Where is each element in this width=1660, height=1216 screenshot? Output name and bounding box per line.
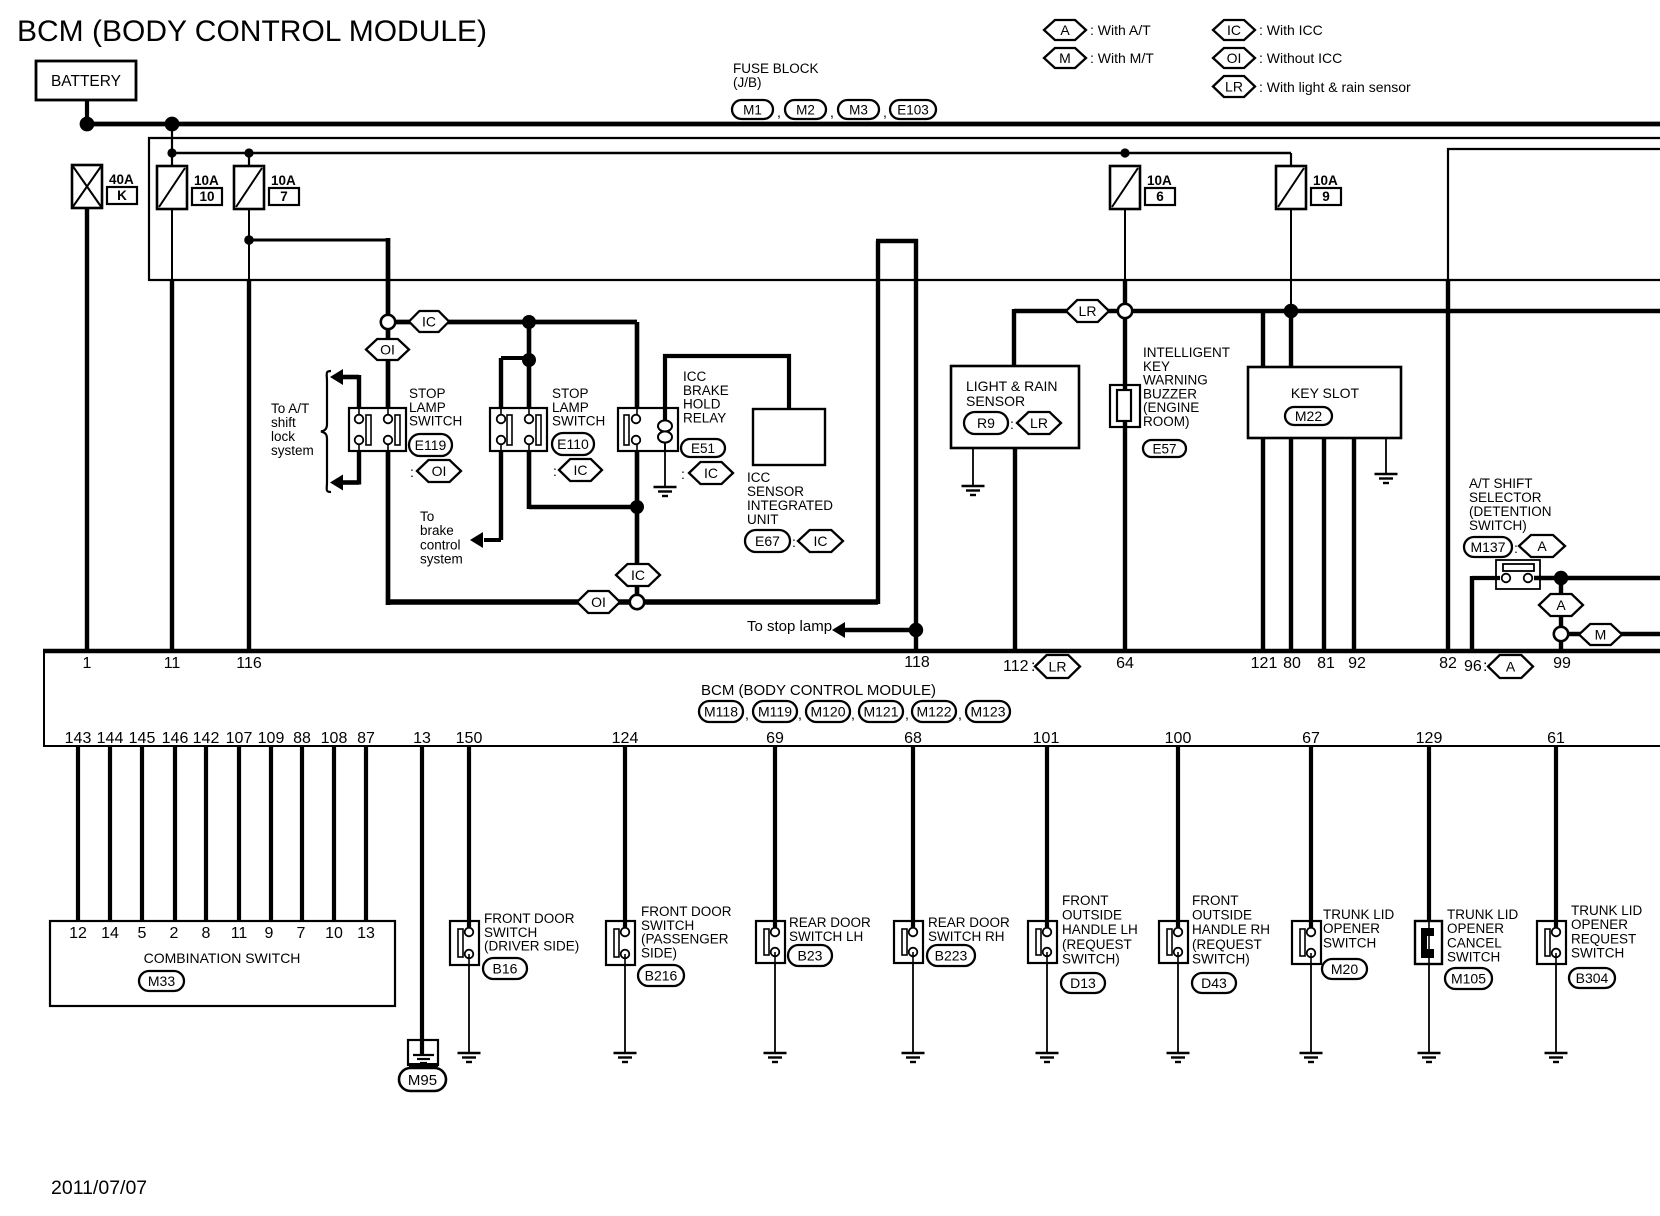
svg-text:SIDE): SIDE) [641,945,677,960]
svg-text:brake: brake [420,523,454,538]
svg-text:M3: M3 [849,102,868,117]
wire LR row y311 [1014,309,1660,314]
combination switch wires [76,746,80,921]
svg-text:CANCEL: CANCEL [1447,935,1502,950]
svg-text:LR: LR [1225,79,1243,95]
junction x529 y360 [522,353,536,367]
svg-text:107: 107 [226,730,253,747]
svg-text:: With light & rain sensor: : With light & rain sensor [1259,79,1411,95]
svg-text:: With ICC: : With ICC [1259,22,1323,38]
svg-text:11: 11 [164,655,181,672]
svg-text:10A: 10A [271,173,296,188]
svg-text:99: 99 [1553,655,1571,672]
svg-text:IC: IC [814,533,828,549]
wire E119 left pin down [358,444,360,450]
bus BAT rail y124 [87,122,1660,127]
svg-text:,: , [745,706,749,722]
svg-text:A/T SHIFT: A/T SHIFT [1469,476,1533,491]
svg-text:HOLD: HOLD [683,397,721,412]
svg-text:92: 92 [1348,655,1366,672]
connector M137 [1464,537,1512,557]
svg-text:KEY: KEY [1143,359,1170,374]
connector E103 [890,100,936,119]
hexagon OI on x388 [366,339,409,360]
svg-text:101: 101 [1033,730,1060,747]
legend IC with ICC [1213,20,1255,40]
trunk lid opener switch M20 [1292,921,1321,964]
svg-text:2: 2 [170,925,179,942]
wire E119 left pin up [357,375,361,409]
wire pin61 to B304 [1554,746,1558,927]
wire x1448 to BCM 82 [1446,280,1450,651]
svg-text:40A: 40A [109,172,134,187]
svg-text:M20: M20 [1331,961,1358,977]
wire bus to rail153 at x172 [171,124,173,166]
svg-text:IC: IC [1227,22,1241,38]
svg-text:,: , [851,706,855,722]
svg-text:HANDLE LH: HANDLE LH [1062,922,1138,937]
svg-text:OI: OI [591,594,606,610]
svg-text:R9: R9 [977,415,995,431]
front outside handle LH request switch D13 [1028,921,1057,963]
wire x878 up [876,241,880,604]
ground B216 [614,1052,637,1054]
svg-text:14: 14 [101,925,119,942]
fuse 10A 10 [157,166,187,209]
svg-text:145: 145 [129,730,156,747]
svg-text:OI: OI [432,463,447,479]
fuse 40A K [72,165,102,208]
wire B16 to ground [468,965,470,1053]
svg-text:HANDLE RH: HANDLE RH [1192,922,1270,937]
svg-text:system: system [420,552,463,567]
svg-text:143: 143 [65,730,92,747]
svg-text:BRAKE: BRAKE [683,383,729,398]
svg-text:B216: B216 [645,968,678,984]
svg-text:5: 5 [138,925,147,942]
wire coil to ground [664,448,666,487]
svg-text:BUZZER: BUZZER [1143,386,1197,401]
wire fuse6 to circle [1124,209,1126,280]
wire pin124 to B216 [623,746,627,927]
svg-text::: : [681,466,685,482]
connector M20 [1322,959,1367,979]
wire B216 to ground [624,965,626,1053]
arrow to brake control system [470,532,483,548]
front door switch passenger B216 [606,921,635,965]
trunk lid opener request switch B304 [1537,921,1566,964]
svg-text:IC: IC [631,567,645,583]
svg-text:K: K [117,188,127,203]
arrow to stop lamp [832,622,845,638]
svg-text:RELAY: RELAY [683,410,726,425]
junction rail153 x249 [244,148,253,157]
svg-text:E51: E51 [691,441,715,456]
stop lamp switch E119 [349,408,406,451]
svg-text:D43: D43 [1201,975,1227,991]
connector M122 [912,701,956,722]
wire y240 branch [249,239,388,242]
svg-text:124: 124 [612,730,639,747]
svg-text:OPENER: OPENER [1447,921,1504,936]
wire B304 to ground [1555,964,1557,1053]
legend OI without ICC [1213,48,1255,68]
hexagon A pin96 [1488,655,1533,678]
svg-text:,: , [883,104,887,120]
wire x1472 to BCM 96 [1470,576,1474,651]
wire detention switch left [1472,576,1500,580]
svg-text:M120: M120 [810,704,845,720]
junction x1291 y311 [1284,304,1299,319]
svg-text:9: 9 [1322,189,1330,204]
svg-text:SWITCH LH: SWITCH LH [789,929,863,944]
svg-text:M123: M123 [970,704,1005,720]
svg-text:(PASSENGER: (PASSENGER [641,932,729,947]
svg-text:B223: B223 [935,948,968,964]
junction x1561 y575 [1554,571,1568,585]
wire x1561 down [1559,578,1563,628]
ground light rain sensor [962,485,985,487]
svg-text:A: A [1556,597,1566,613]
svg-text:LR: LR [1079,303,1097,319]
fuse 10A 6 [1110,166,1140,209]
svg-text:E67: E67 [755,533,780,549]
key slot M22 [1248,367,1401,438]
svg-text:FRONT DOOR: FRONT DOOR [641,904,732,919]
svg-text:67: 67 [1302,730,1320,747]
svg-text:ICC: ICC [747,470,771,485]
svg-text:OPENER: OPENER [1323,921,1380,936]
rail y280 [149,279,1660,281]
svg-text:: With M/T: : With M/T [1090,50,1154,66]
wire D43 to ground [1177,963,1179,1053]
svg-text:E57: E57 [1152,441,1176,456]
svg-text:7: 7 [297,925,306,942]
connector E67 [745,530,790,552]
ground B23 [764,1052,787,1054]
svg-text:1: 1 [83,655,92,672]
svg-text:144: 144 [97,730,124,747]
svg-text:shift: shift [271,415,296,430]
svg-text:,: , [958,706,962,722]
junction battery bus [80,117,95,132]
svg-text:ROOM): ROOM) [1143,414,1190,429]
front door switch driver B16 [450,921,479,965]
connector D43 [1192,973,1236,993]
svg-text:142: 142 [193,730,220,747]
svg-text:B23: B23 [798,948,823,964]
svg-text:SWITCH: SWITCH [641,918,694,933]
ground M105 [1418,1052,1441,1054]
hexagon IC branch [409,311,449,332]
wire pin68 to B223 [911,746,915,927]
connector D13 [1061,973,1105,993]
svg-text:M1: M1 [743,102,762,117]
wire circle to buzzer and BCM 64 [1123,318,1127,651]
svg-text:12: 12 [69,925,87,942]
arrow to A/T top [330,369,343,385]
svg-text:M118: M118 [704,704,738,720]
svg-text:,: , [830,104,834,120]
svg-text:129: 129 [1416,730,1443,747]
svg-text:IC: IC [574,462,588,478]
wire pin69 to B23 [773,746,777,927]
wire sensor to BCM 112 [1013,448,1017,651]
svg-text:SWITCH: SWITCH [409,414,462,429]
wire x501 to switch E110 [499,358,503,409]
svg-text:STOP: STOP [552,386,589,401]
ground D43 [1167,1052,1190,1054]
svg-text:109: 109 [258,730,285,747]
rail y149 right [1447,148,1660,150]
svg-text:: With A/T: : With A/T [1090,22,1151,38]
wire to stop lamp arrow [845,628,916,633]
hexagon IC above circle [616,564,660,586]
ICC sensor integrated unit E67 [753,409,825,465]
svg-text:88: 88 [293,730,311,747]
svg-text:KEY SLOT: KEY SLOT [1291,385,1360,401]
hexagon M on y635 [1579,624,1622,645]
svg-text:TRUNK LID: TRUNK LID [1447,907,1519,922]
wire x529 to switch E110 pin [527,360,532,409]
svg-text:69: 69 [766,730,784,747]
ground relay [654,486,677,488]
svg-text:100: 100 [1165,730,1192,747]
junction x249 y240 [244,235,254,245]
svg-text:A: A [1060,22,1070,38]
wire M row y635 [1568,632,1660,637]
trunk lid opener cancel switch M105 [1415,921,1442,964]
legend M with M/T [1044,48,1086,68]
node circle x1561 y635 [1554,627,1568,641]
wire fuse9 to key slot [1290,209,1292,307]
svg-text:To stop lamp: To stop lamp [747,618,832,635]
wire y507 switch E110 to relay column [529,505,637,510]
svg-text:FRONT: FRONT [1062,893,1109,908]
legend A with A/T [1044,20,1086,40]
ground B304 [1545,1052,1568,1054]
svg-text:LIGHT & RAIN: LIGHT & RAIN [966,378,1058,394]
ground M95 [408,1040,438,1065]
svg-text:FRONT DOOR: FRONT DOOR [484,911,575,926]
wire relay coil top [663,354,667,421]
svg-text:E103: E103 [897,102,929,117]
svg-text:,: , [798,706,802,722]
svg-text:,: , [777,104,781,120]
svg-text:BCM (BODY CONTROL MODULE): BCM (BODY CONTROL MODULE) [701,682,936,699]
ICC brake hold relay E51 [618,408,678,451]
svg-text:87: 87 [357,730,375,747]
wire M105 to ground [1428,964,1430,1053]
svg-text:M119: M119 [758,704,792,720]
wire y540 to arrow [484,538,501,542]
front outside handle RH request switch D43 [1159,921,1188,963]
arrow to A/T bottom [330,475,343,491]
svg-text:2011/07/07: 2011/07/07 [51,1177,147,1199]
svg-text:lock: lock [271,429,295,444]
svg-text:7: 7 [280,189,288,204]
wire pin150 to B16 [467,746,471,927]
BCM box [43,649,1660,653]
hexagon LR on y311 [1066,300,1109,322]
svg-text:M: M [1059,50,1071,66]
brace to A/T shift lock system [321,371,331,492]
svg-text:(REQUEST: (REQUEST [1062,937,1132,952]
svg-text:REQUEST: REQUEST [1571,931,1636,946]
svg-text:M105: M105 [1451,971,1486,987]
wire B223 to ground [912,963,914,1053]
svg-text:FRONT: FRONT [1192,893,1239,908]
svg-text:To A/T: To A/T [271,401,309,416]
wire battery to bus [85,100,89,127]
svg-text:M122: M122 [916,704,951,720]
connector M1 [732,100,773,119]
wire pin13 to M95 [420,746,424,1056]
svg-text:64: 64 [1116,655,1134,672]
svg-text:B304: B304 [1576,970,1609,986]
svg-text:SWITCH RH: SWITCH RH [928,929,1005,944]
junction to stop lamp [909,623,923,637]
svg-text::: : [792,534,796,550]
connector M105 [1445,968,1492,989]
light and rain sensor R9 [951,366,1079,448]
wire x1448 thin [1447,148,1449,281]
svg-text:10A: 10A [194,173,219,188]
svg-text:OI: OI [380,342,395,358]
rear door switch LH B23 [756,921,785,963]
connector M121 [859,701,903,722]
combination switch M33 [50,921,395,1006]
svg-text::: : [553,463,557,479]
connector M120 [806,701,850,722]
connector M123 [966,701,1010,722]
svg-text::: : [1514,540,1518,556]
wire pin101 to D13 [1045,746,1049,927]
svg-text:D13: D13 [1070,975,1096,991]
rail y138 [148,137,1660,139]
connector B216 [638,965,684,986]
connector E110 [552,433,594,455]
svg-text:To: To [420,509,434,524]
svg-text:10: 10 [325,925,343,942]
svg-text:M121: M121 [863,704,898,720]
svg-text:81: 81 [1317,655,1335,672]
svg-text:LAMP: LAMP [409,400,446,415]
wire x1014 to light rain sensor [1012,309,1016,366]
wire E119 out to OI corner [387,444,389,450]
ground B223 [902,1052,925,1054]
svg-text:OUTSIDE: OUTSIDE [1192,908,1252,923]
svg-text:9: 9 [265,925,274,942]
connector M95 [399,1068,446,1091]
hexagon A condition M137 [1519,535,1565,557]
wire x1263 down to key slot [1261,311,1265,367]
node circle x637 y602 [630,595,644,609]
svg-text:BATTERY: BATTERY [51,73,121,90]
svg-text:(DRIVER SIDE): (DRIVER SIDE) [484,939,579,954]
svg-text:SWITCH: SWITCH [1447,950,1500,965]
svg-text:LR: LR [1049,659,1067,675]
wire pin67 to M20 [1309,746,1313,927]
connector M119 [753,701,797,722]
wire D13 to ground [1046,963,1048,1053]
hexagon LR pin112 [1035,655,1080,678]
svg-text:80: 80 [1283,655,1301,672]
svg-text:13: 13 [413,730,431,747]
wire rail153 to fuse9 [1290,153,1292,166]
connector M118 [699,701,743,722]
svg-text:SWITCH: SWITCH [552,414,605,429]
svg-text:SWITCH): SWITCH) [1469,518,1527,533]
wire fuse K to BCM pin 1 [85,208,89,651]
svg-text:96: 96 [1464,658,1482,675]
wire pin100 to D43 [1176,746,1180,927]
svg-text:M95: M95 [408,1072,437,1089]
fuse 10A 9 [1276,166,1306,209]
svg-text:118: 118 [904,654,930,671]
node ignition circle x388 [381,315,395,329]
svg-text:M33: M33 [148,973,175,989]
junction IC line x529 [522,315,536,329]
wire x529 E110 down [528,444,530,450]
svg-text:UNIT: UNIT [747,512,779,527]
connector B223 [927,945,975,966]
ground M20 [1300,1052,1323,1054]
svg-text:control: control [420,537,461,552]
stop lamp switch E110 [490,408,547,451]
wire x501 E110 down to brake control [500,444,502,450]
svg-text:10: 10 [199,189,214,204]
wire rail153 to fuse7 [248,153,250,166]
svg-text:M137: M137 [1470,539,1505,555]
wire IC line y322 [395,320,637,325]
wire x637 relay to circle [636,444,638,450]
svg-text:M: M [1595,627,1607,643]
svg-text:IC: IC [422,314,436,330]
connector E119 [409,434,452,456]
wire bridge y241 [876,239,918,243]
svg-text:10A: 10A [1147,173,1172,188]
wire OI row y602 [388,599,878,604]
ground B16 [458,1052,481,1054]
wire M20 to ground [1310,964,1312,1053]
svg-text:LAMP: LAMP [552,400,589,415]
svg-text:A: A [1537,538,1547,554]
wire key slot ground pin [1385,438,1387,474]
wire y360 to left pin [501,356,529,360]
svg-text:61: 61 [1547,730,1565,747]
key slot pin wires [1261,438,1265,651]
ground D13 [1036,1052,1059,1054]
svg-text:6: 6 [1156,189,1164,204]
wire sensor to ground [972,448,974,486]
svg-text:INTELLIGENT: INTELLIGENT [1143,345,1230,360]
svg-text:WARNING: WARNING [1143,373,1208,388]
svg-text:8: 8 [202,925,211,942]
svg-text:FUSE BLOCK: FUSE BLOCK [733,61,819,76]
wire x388 down to switch [386,238,391,409]
svg-text:REAR DOOR: REAR DOOR [789,915,871,930]
svg-text:OPENER: OPENER [1571,917,1628,932]
svg-text:: Without ICC: : Without ICC [1259,50,1342,66]
hexagon OI on y602 [577,591,620,613]
wire coil top to ICC unit [663,354,791,358]
svg-text:REAR DOOR: REAR DOOR [928,915,1010,930]
wire x149 down [148,137,150,281]
svg-text:ICC: ICC [683,369,707,384]
connector E57 [1143,440,1186,457]
wire fuse 7 to BCM pin 116 [248,209,250,280]
